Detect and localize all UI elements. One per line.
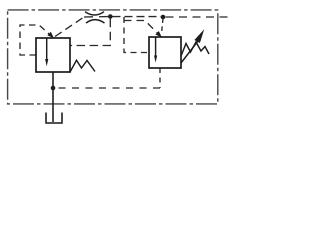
left valve V1 body square [36,38,70,72]
left valve internal flow arrowhead [45,59,48,66]
arrowhead into right valve top [155,31,161,37]
pilot line dot1 to dot2 [113,16,162,18]
external pilot port line to the right [166,16,229,18]
adjustment arrow shaft through spring [181,41,198,63]
arrowhead into left valve top [47,32,53,38]
enclosure boundary (dash-dot assembly frame) [8,10,218,104]
junction node dot1 [108,14,113,19]
junction node dot3 [51,86,56,91]
left valve spring [70,60,95,72]
right valve internal flow arrowhead [154,56,157,63]
pilot branch to right valve top (horizontal + diagonal) [124,21,159,35]
right valve drain line down [159,68,161,88]
junction node dot2 [161,15,166,20]
orifice (restrictor) top arc [85,12,104,15]
pilot branch down from dot1 to left valve spring chamber [71,19,111,46]
left valve outlet line down to tank [52,72,54,122]
right valve adjustable spring [181,42,209,56]
tank symbol [46,113,62,124]
right valve V2 body square [149,37,181,68]
pilot line loop A (left valve left side up and over) [20,25,53,55]
left valve internal flow line [46,38,48,60]
right valve drain line left to junction [55,87,160,89]
adjustment arrowhead [194,29,204,43]
orifice (restrictor) bottom arc [86,20,105,23]
pilot diagonal from left valve top to orifice [55,17,84,37]
pilot wing from dot2 down to right valve top [162,19,164,34]
pilot line through orifice [84,16,108,18]
right valve internal flow line [155,37,157,56]
pilot branch down at x=124 to right valve left port [124,17,149,53]
